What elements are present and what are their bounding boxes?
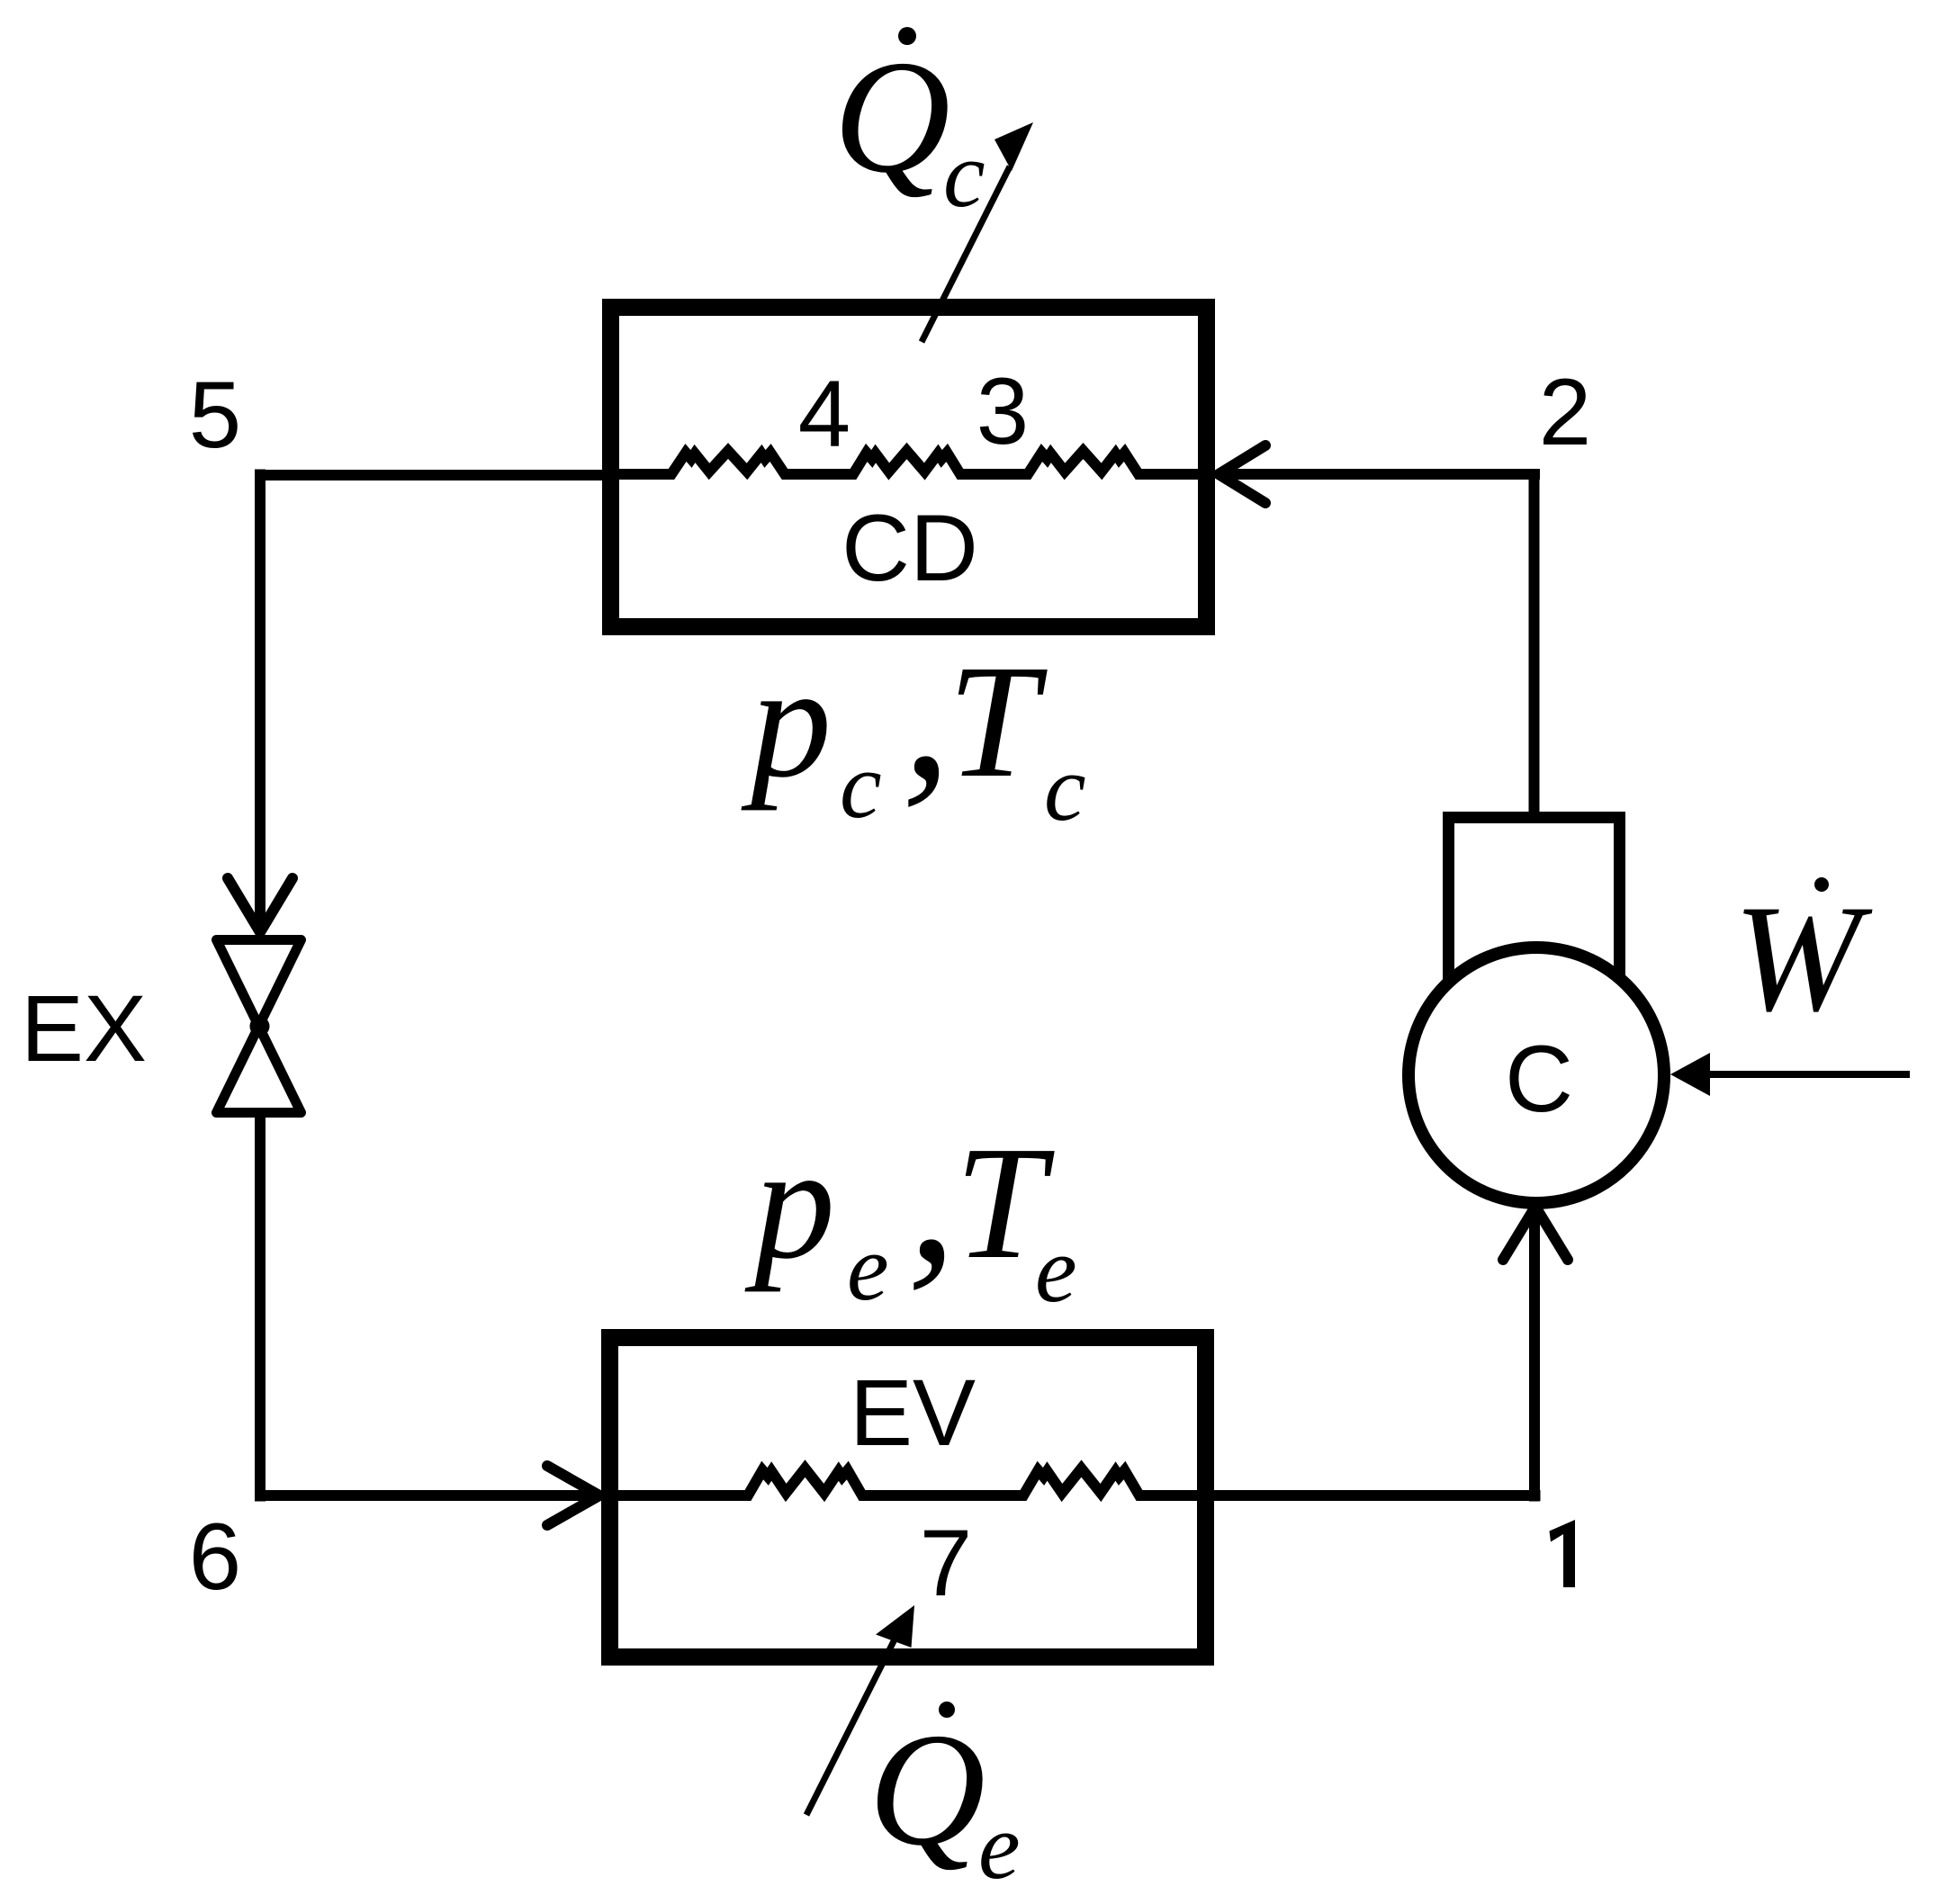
- wire from valve down to node 6 corner: [255, 1118, 265, 1502]
- arrowhead into compressor (up): [1503, 1207, 1568, 1260]
- svg-text:c: c: [943, 121, 985, 227]
- svg-text:e: e: [1035, 1217, 1077, 1322]
- svg-text:7: 7: [920, 1511, 972, 1616]
- svg-text:T: T: [948, 632, 1048, 811]
- svg-text:4: 4: [798, 362, 850, 467]
- svg-text:p: p: [744, 1113, 835, 1292]
- work input W arrow line: [1707, 1071, 1910, 1078]
- label Qc dot: [898, 27, 916, 45]
- W arrowhead: [1670, 1053, 1710, 1096]
- Qe arrowhead: [876, 1605, 914, 1648]
- evaporator coil line with resistor zigzags: [601, 1468, 1214, 1495]
- compressor circle C: [1408, 948, 1664, 1203]
- wire vertical node 1 up to compressor: [1529, 1213, 1540, 1502]
- wire from evaporator right to node 1 corner: [1214, 1490, 1541, 1501]
- svg-text:EX: EX: [21, 976, 147, 1082]
- condenser CD box: [611, 308, 1207, 627]
- svg-text:,: ,: [902, 600, 951, 820]
- valve center dot: [250, 1017, 270, 1037]
- svg-text:2: 2: [1539, 360, 1591, 465]
- svg-text:EV: EV: [850, 1361, 976, 1466]
- wire from condenser right to node 2 corner: [1217, 469, 1540, 480]
- svg-text:Q: Q: [833, 27, 950, 206]
- wire vertical from node 5 down to expansion valve: [255, 470, 265, 933]
- svg-text:W: W: [1733, 874, 1873, 1043]
- arrowhead into valve (down): [228, 878, 292, 932]
- svg-text:6: 6: [189, 1504, 241, 1610]
- svg-text:c: c: [840, 732, 882, 838]
- svg-text:5: 5: [189, 363, 241, 468]
- label Qe dot: [939, 1702, 955, 1718]
- wire from node 5 corner to condenser left: [260, 470, 607, 480]
- label W dot: [1814, 877, 1829, 892]
- expansion valve EX bowtie: [217, 940, 301, 1113]
- condenser coil line with resistor zigzags: [602, 451, 1215, 474]
- wire from node 6 corner to evaporator left: [255, 1490, 599, 1501]
- heat flow Qe arrow line: [806, 1638, 895, 1815]
- arrowhead into evaporator (right): [547, 1466, 599, 1525]
- evaporator EV box: [610, 1338, 1206, 1657]
- svg-text:CD: CD: [841, 496, 978, 601]
- svg-text:,: ,: [907, 1083, 957, 1303]
- label 1: [1550, 1520, 1576, 1587]
- Qc arrowhead: [994, 122, 1033, 171]
- svg-text:e: e: [978, 1793, 1021, 1899]
- svg-text:p: p: [741, 632, 832, 811]
- svg-text:c: c: [1044, 735, 1086, 840]
- compressor inlet rectangle: [1449, 818, 1620, 1018]
- svg-text:3: 3: [976, 359, 1029, 464]
- wire vertical from node 2 down to compressor rect: [1529, 470, 1540, 818]
- svg-text:C: C: [1505, 1027, 1573, 1132]
- svg-text:Q: Q: [868, 1700, 985, 1879]
- arrowhead into condenser (left): [1219, 445, 1265, 503]
- heat flow Qc arrow line: [922, 166, 1010, 342]
- svg-text:e: e: [847, 1215, 889, 1320]
